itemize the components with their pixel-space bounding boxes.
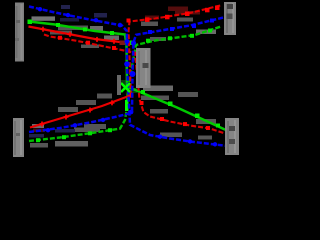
value labels (navy smudges) along bottom-left blue [29, 129, 75, 138]
value labels (dark green) near center X [118, 80, 137, 93]
value labels (gray smudges) top-right [141, 18, 216, 42]
markers: red squares on top-right red [127, 6, 220, 98]
markers: red plus signs on top-left red [41, 27, 117, 44]
line: red solid top-left, ends at center [29, 27, 125, 43]
markers: green squares on dashed green [36, 29, 212, 143]
marker: big green X at center [121, 83, 130, 92]
marker: dark red end block at center [120, 41, 126, 46]
line: red dashed top-left #2 down to bottom-right [44, 35, 225, 134]
line: blue dashed top-left, vertical at waist, to bottom-right [29, 7, 226, 146]
line: blue dashed bottom-left, vertical at waist, to top-right [29, 18, 224, 133]
axis label bar left-top [15, 3, 24, 62]
line: green dashed bottom-left, up through waist, to top-right [29, 27, 221, 142]
markers: green squares on green solid [28, 20, 221, 128]
markers: blue dots on dashed blue [38, 7, 217, 147]
line: red steep at waist, dashed to top-right [129, 5, 223, 95]
axis label bar right-top [224, 2, 236, 35]
axis label bar center [136, 48, 151, 88]
line: green solid top-left, down through center X, to bottom-right [29, 22, 227, 131]
value labels (navy smudges) along top-left blue [60, 5, 107, 22]
markers: red squares on dashed red [58, 36, 210, 130]
markers: blue dots and squares on second blue [46, 19, 214, 133]
markers: red plus signs on bottom-left red [40, 100, 115, 126]
value labels (dark red) along top-right red [145, 7, 200, 20]
value labels (gray smudges) bottom-left [30, 94, 112, 148]
axis label bar right-bottom [225, 118, 239, 155]
axis label bar center-left small [117, 75, 121, 95]
line: red bottom-left up to center [30, 95, 131, 127]
value labels (gray smudges) bottom-right [141, 86, 216, 140]
axis label bar left-bottom [13, 118, 24, 157]
value labels (gray smudges) top-left [32, 16, 120, 48]
